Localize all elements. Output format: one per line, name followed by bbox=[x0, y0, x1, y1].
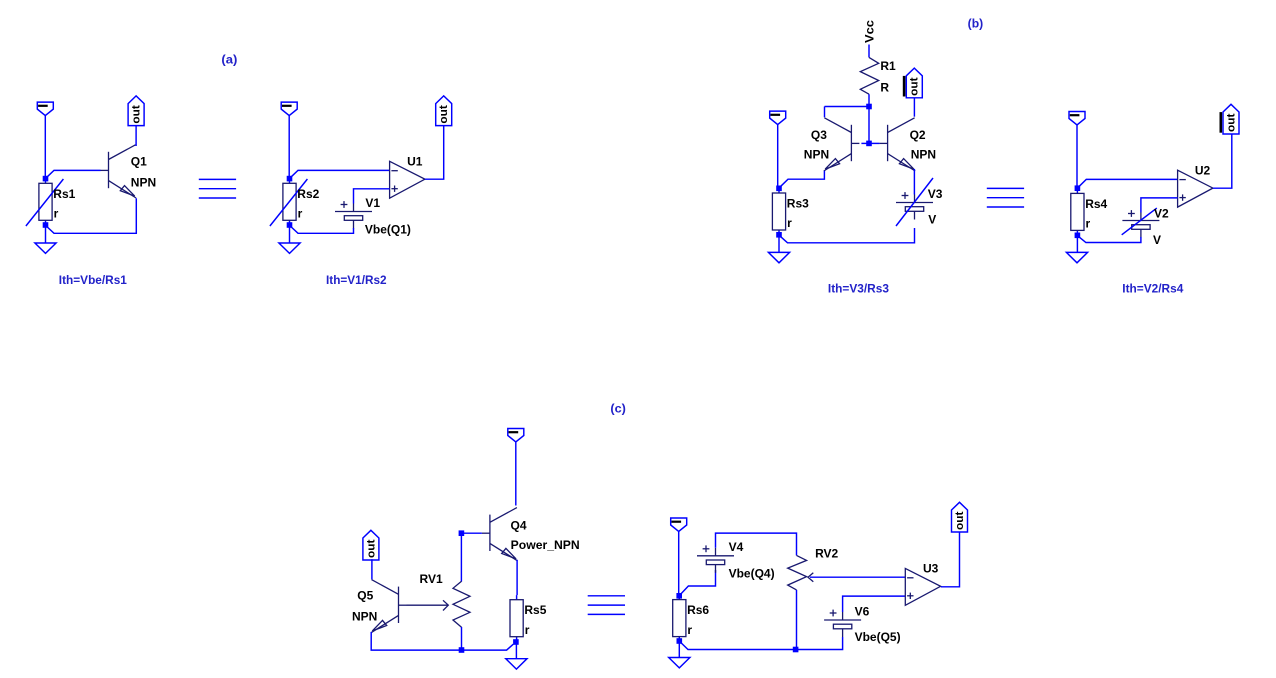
junction Rs6 top node bbox=[676, 593, 682, 599]
out flag b2 bbox=[1220, 104, 1240, 134]
equivalence sign (b) bbox=[987, 188, 1024, 207]
svg-text:NPN: NPN bbox=[352, 610, 377, 624]
svg-text:Vcc: Vcc bbox=[862, 20, 876, 43]
wire Rs6 bottom to ground bbox=[678, 641, 680, 658]
wire flag to Rs1 top bbox=[44, 116, 46, 177]
svg-text:r: r bbox=[525, 623, 530, 637]
wire node to Q4 base bbox=[461, 532, 482, 534]
transistor Q2 bbox=[880, 118, 916, 171]
out flag c2 bbox=[952, 502, 968, 532]
svg-text:V4: V4 bbox=[729, 540, 744, 554]
wire Rs4 bottom to ground bbox=[1076, 235, 1078, 252]
svg-text:Rs2: Rs2 bbox=[297, 187, 319, 201]
wire Q1 emitter to Rs1 bottom bbox=[46, 198, 137, 233]
svg-text:U3: U3 bbox=[923, 561, 939, 575]
junction Rs1 top node bbox=[43, 176, 49, 182]
wire down to Q3 collector bbox=[824, 107, 826, 118]
svg-text:r: r bbox=[787, 216, 792, 230]
voltage source V3 (variable) bbox=[896, 178, 933, 226]
svg-text:(a): (a) bbox=[221, 52, 237, 66]
wire flag to Rs6 top bbox=[678, 532, 680, 594]
svg-text:r: r bbox=[687, 623, 692, 637]
wire RV1 bottom bbox=[461, 627, 463, 648]
op-amp U3 bbox=[905, 568, 940, 605]
svg-text:Vbe(Q4): Vbe(Q4) bbox=[729, 567, 775, 581]
wire RV2 wiper to U3 inverting input bbox=[810, 576, 905, 578]
junction bottom node c1 left bbox=[459, 647, 465, 653]
wire Rs6 bottom along to V6 minus bbox=[680, 637, 843, 650]
wire Q4 emitter to Rs5 top bbox=[516, 560, 518, 595]
wire V1 plus to U1 non-inverting input bbox=[354, 189, 390, 204]
svg-text:V1: V1 bbox=[365, 196, 380, 210]
wire RV2 bottom bbox=[796, 590, 798, 648]
op-amp U1 bbox=[390, 161, 425, 198]
wire Rs4 top to U2 inverting input bbox=[1078, 179, 1178, 187]
voltage source V1 bbox=[335, 201, 372, 228]
net flag (dash) c2 bbox=[671, 518, 687, 532]
ground b2 bbox=[1066, 252, 1087, 262]
svg-text:NPN: NPN bbox=[911, 147, 936, 161]
wire Q2 collector to out flag bbox=[913, 98, 915, 117]
wire V3 minus to Rs3 bottom bbox=[779, 228, 914, 243]
resistor Rs3 bbox=[772, 188, 785, 234]
svg-text:out: out bbox=[131, 105, 143, 124]
resistor Rs2 (variable) bbox=[270, 179, 308, 226]
net flag (dash) b2 bbox=[1069, 112, 1085, 126]
resistor Rs6 bbox=[673, 595, 686, 641]
svg-text:V2: V2 bbox=[1154, 206, 1169, 220]
wire node to Q3 collector branch bbox=[825, 106, 867, 108]
wire to Q3 base bbox=[861, 142, 869, 144]
wire U1 output to out flag bbox=[425, 126, 444, 180]
svg-text:Rs1: Rs1 bbox=[53, 187, 75, 201]
svg-text:out: out bbox=[909, 77, 921, 96]
voltage source V2 (variable) bbox=[1122, 208, 1160, 237]
wire U2 output to out flag bbox=[1213, 134, 1232, 188]
svg-text:U2: U2 bbox=[1195, 164, 1211, 178]
junction base node bbox=[866, 141, 872, 147]
svg-text:r: r bbox=[298, 207, 303, 221]
transistor Q5 (mirrored) bbox=[371, 580, 407, 633]
transistor Q4 bbox=[482, 508, 518, 561]
out flag a2 bbox=[436, 96, 452, 126]
wire V6 plus to U3 non-inverting input bbox=[843, 596, 906, 612]
out flag c1 bbox=[363, 530, 379, 560]
ground c1 bbox=[506, 659, 527, 669]
svg-text:Q3: Q3 bbox=[811, 128, 827, 142]
equivalence sign (c) bbox=[588, 596, 625, 615]
svg-text:Q5: Q5 bbox=[357, 589, 373, 603]
junction RV1 top node bbox=[459, 530, 465, 536]
svg-text:Power_NPN: Power_NPN bbox=[511, 538, 580, 552]
junction Rs6 bottom node bbox=[677, 638, 683, 644]
resistor Rs4 bbox=[1071, 189, 1084, 235]
svg-text:out: out bbox=[954, 511, 966, 530]
wire Q3 emitter to Rs3 top bbox=[779, 171, 824, 188]
junction bottom node c2 bbox=[793, 647, 799, 653]
junction Rs2 bottom node bbox=[287, 222, 293, 228]
svg-text:Q2: Q2 bbox=[910, 128, 926, 142]
wire Q5 emitter along bottom to Rs5 bbox=[371, 632, 513, 650]
svg-text:NPN: NPN bbox=[804, 147, 829, 161]
out flag a1 bbox=[128, 96, 144, 126]
junction Rs1 bottom node bbox=[43, 222, 49, 228]
net flag (dash) b1 bbox=[770, 111, 786, 125]
junction Rs3 top node bbox=[776, 186, 782, 192]
wire Rs6 top to V4 minus bbox=[680, 570, 716, 595]
wire V2 plus to U2 non-inverting input bbox=[1141, 198, 1178, 213]
equivalence sign (a) bbox=[199, 179, 236, 198]
wire Rs1 bottom to ground bbox=[45, 225, 47, 243]
resistor Rs5 bbox=[510, 595, 523, 641]
svg-text:out: out bbox=[1225, 113, 1237, 132]
wire R1 to node bbox=[868, 94, 870, 104]
ground c2 bbox=[669, 658, 690, 668]
voltage source V6 bbox=[824, 610, 861, 637]
ground a1 bbox=[35, 243, 56, 253]
svg-text:NPN: NPN bbox=[131, 175, 156, 189]
svg-text:(b): (b) bbox=[968, 16, 984, 30]
junction Rs5 bottom node bbox=[513, 639, 519, 645]
svg-text:Vbe(Q5): Vbe(Q5) bbox=[855, 630, 901, 644]
wire Rs5 bottom to ground bbox=[515, 644, 517, 659]
svg-text:Rs4: Rs4 bbox=[1085, 197, 1107, 211]
svg-text:Rs6: Rs6 bbox=[687, 603, 709, 617]
svg-text:R: R bbox=[880, 80, 889, 94]
junction Rs2 top node bbox=[287, 176, 293, 182]
out flag b1 bbox=[903, 68, 923, 98]
svg-text:Ith=V2/Rs4: Ith=V2/Rs4 bbox=[1122, 281, 1183, 295]
wire Rs3 bottom to ground bbox=[778, 235, 780, 253]
wire U3 output to out flag bbox=[941, 532, 960, 587]
svg-text:Q4: Q4 bbox=[511, 518, 527, 532]
transistor Q1 bbox=[101, 145, 137, 198]
svg-text:RV2: RV2 bbox=[815, 547, 838, 561]
wire Vcc to R1 bbox=[868, 45, 870, 58]
svg-text:out: out bbox=[438, 105, 450, 124]
wire flag to Q4 collector bbox=[515, 442, 517, 506]
resistor Rs1 (variable) bbox=[26, 179, 64, 226]
svg-text:Q1: Q1 bbox=[131, 155, 147, 169]
wire node to bases bbox=[868, 107, 870, 142]
wire flag to Rs3 top bbox=[777, 125, 779, 186]
svg-text:Ith=V3/Rs3: Ith=V3/Rs3 bbox=[828, 281, 889, 295]
junction Rs4 top node bbox=[1075, 185, 1081, 191]
svg-text:r: r bbox=[54, 207, 59, 221]
RV1 wiper arrow bbox=[407, 600, 449, 610]
ground b1 bbox=[768, 252, 789, 262]
wire V1 minus to Rs2 bottom bbox=[290, 226, 354, 234]
svg-text:Ith=V1/Rs2: Ith=V1/Rs2 bbox=[326, 273, 387, 287]
wire flag to Rs4 top bbox=[1076, 125, 1078, 186]
potentiometer RV1 bbox=[453, 581, 470, 627]
resistor R1 bbox=[860, 57, 878, 94]
svg-text:V: V bbox=[928, 213, 936, 227]
wire Q2 emitter to V3 bbox=[913, 169, 915, 195]
potentiometer RV2 bbox=[788, 555, 807, 590]
net flag (dash) a2 bbox=[281, 102, 297, 116]
wire flag to Rs2 top bbox=[288, 116, 290, 177]
junction Rs3 bottom node bbox=[776, 232, 782, 238]
svg-text:Rs3: Rs3 bbox=[787, 197, 809, 211]
wire V4 plus to RV2 top bbox=[716, 533, 797, 555]
wire node to RV1 bbox=[460, 533, 462, 581]
ground a2 bbox=[279, 243, 300, 253]
svg-text:r: r bbox=[1086, 217, 1091, 231]
svg-text:V: V bbox=[1153, 233, 1161, 247]
wire Q1 collector to out flag bbox=[135, 126, 137, 146]
op-amp U2 bbox=[1178, 170, 1213, 207]
svg-text:out: out bbox=[365, 539, 377, 558]
wire Rs1 top to Q1 base bbox=[46, 170, 101, 178]
net flag (dash) c1 bbox=[508, 429, 524, 443]
wire Rs2 top to U1 inverting input bbox=[290, 170, 390, 178]
svg-text:RV1: RV1 bbox=[420, 572, 443, 586]
wire V2 minus to Rs4 bottom bbox=[1078, 236, 1141, 243]
svg-text:V3: V3 bbox=[928, 187, 943, 201]
RV2 wiper arrow bbox=[808, 573, 813, 582]
transistor Q3 (mirrored) bbox=[824, 118, 860, 171]
net flag (dash) a1 bbox=[37, 102, 53, 116]
voltage source V4 bbox=[697, 545, 734, 572]
wire Rs2 bottom to ground bbox=[289, 225, 291, 243]
wire to Q2 base bbox=[869, 142, 880, 144]
svg-text:Ith=Vbe/Rs1: Ith=Vbe/Rs1 bbox=[59, 273, 127, 287]
svg-text:Rs5: Rs5 bbox=[524, 603, 546, 617]
svg-text:U1: U1 bbox=[407, 155, 423, 169]
svg-text:Vbe(Q1): Vbe(Q1) bbox=[365, 223, 411, 237]
svg-text:V6: V6 bbox=[855, 604, 870, 618]
junction Rs4 bottom node bbox=[1075, 233, 1081, 239]
junction R1 bottom node bbox=[866, 104, 872, 110]
svg-text:(c): (c) bbox=[610, 402, 626, 416]
wire Q5 collector to out flag bbox=[371, 559, 373, 579]
svg-text:R1: R1 bbox=[880, 59, 896, 73]
